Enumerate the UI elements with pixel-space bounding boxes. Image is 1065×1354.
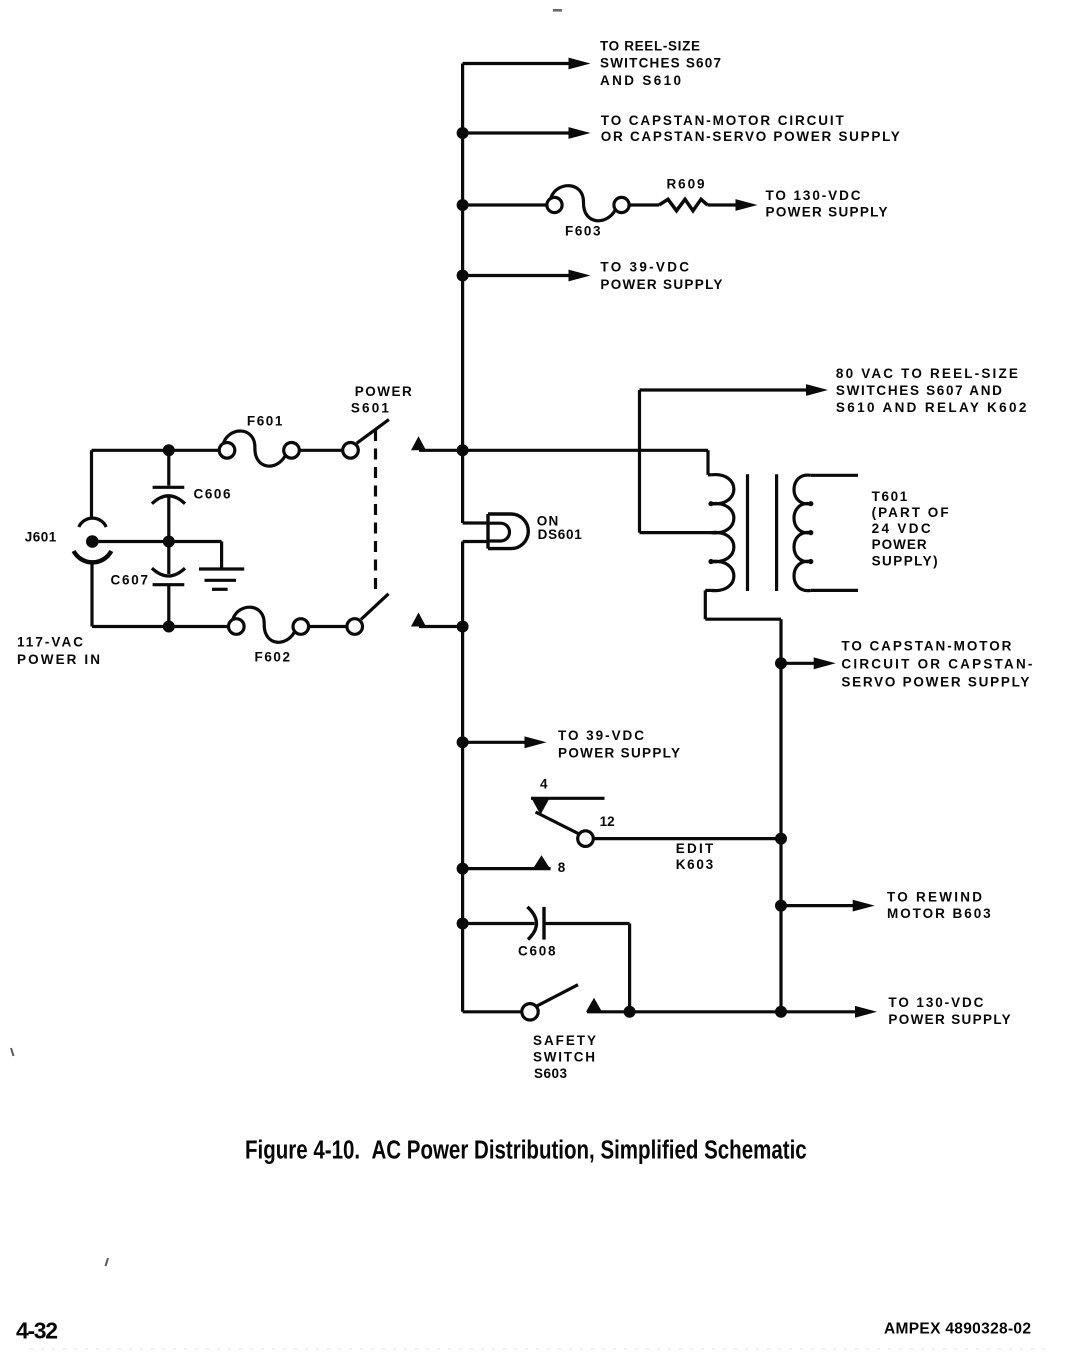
- svg-text:SWITCHES S607: SWITCHES S607: [600, 55, 721, 70]
- svg-text:F603: F603: [565, 223, 601, 238]
- svg-text:POWER: POWER: [872, 537, 927, 552]
- svg-text:C608: C608: [518, 944, 556, 959]
- svg-text:POWER SUPPLY: POWER SUPPLY: [888, 1012, 1010, 1027]
- svg-text:TO 39-VDC: TO 39-VDC: [558, 728, 644, 743]
- svg-text:4: 4: [540, 777, 548, 792]
- svg-text:Figure 4-10. AC Power Distrib: Figure 4-10. AC Power Distribution, Simp…: [245, 1135, 807, 1164]
- svg-text:T601: T601: [872, 489, 908, 504]
- svg-text:24 VDC: 24 VDC: [872, 521, 931, 536]
- svg-text:MOTOR B603: MOTOR B603: [887, 906, 991, 921]
- svg-text:TO REWIND: TO REWIND: [887, 889, 982, 904]
- svg-text:TO 130-VDC: TO 130-VDC: [766, 188, 861, 203]
- svg-text:TO REEL-SIZE: TO REEL-SIZE: [600, 39, 700, 54]
- svg-text:EDIT: EDIT: [676, 841, 714, 856]
- svg-text:POWER IN: POWER IN: [17, 652, 100, 667]
- svg-text:R609: R609: [667, 176, 705, 191]
- svg-text:F601: F601: [247, 413, 283, 428]
- svg-text:TO CAPSTAN-MOTOR CIRCUIT: TO CAPSTAN-MOTOR CIRCUIT: [601, 113, 845, 128]
- svg-text:TO 130-VDC: TO 130-VDC: [888, 995, 983, 1010]
- svg-text:S603: S603: [534, 1066, 567, 1081]
- svg-text:POWER: POWER: [355, 384, 412, 399]
- svg-text:C607: C607: [111, 572, 149, 587]
- svg-text:POWER SUPPLY: POWER SUPPLY: [558, 745, 680, 760]
- svg-text:POWER SUPPLY: POWER SUPPLY: [766, 204, 888, 219]
- svg-text:AMPEX 4890328-02: AMPEX 4890328-02: [884, 1321, 1031, 1338]
- svg-text:8: 8: [558, 860, 566, 875]
- svg-text:DS601: DS601: [538, 527, 583, 542]
- svg-text:TO 39-VDC: TO 39-VDC: [600, 259, 689, 274]
- svg-text:4-32: 4-32: [16, 1318, 58, 1344]
- svg-text:C606: C606: [194, 486, 231, 501]
- svg-text:J601: J601: [25, 529, 57, 544]
- svg-text:SUPPLY): SUPPLY): [872, 553, 938, 568]
- svg-text:TO CAPSTAN-MOTOR: TO CAPSTAN-MOTOR: [841, 639, 1011, 654]
- svg-text:OR CAPSTAN-SERVO POWER SUPPLY: OR CAPSTAN-SERVO POWER SUPPLY: [601, 129, 900, 144]
- svg-text:SERVO POWER SUPPLY: SERVO POWER SUPPLY: [841, 675, 1029, 690]
- svg-text:K603: K603: [676, 857, 714, 872]
- svg-text:POWER SUPPLY: POWER SUPPLY: [600, 277, 722, 292]
- svg-text:12: 12: [600, 814, 615, 829]
